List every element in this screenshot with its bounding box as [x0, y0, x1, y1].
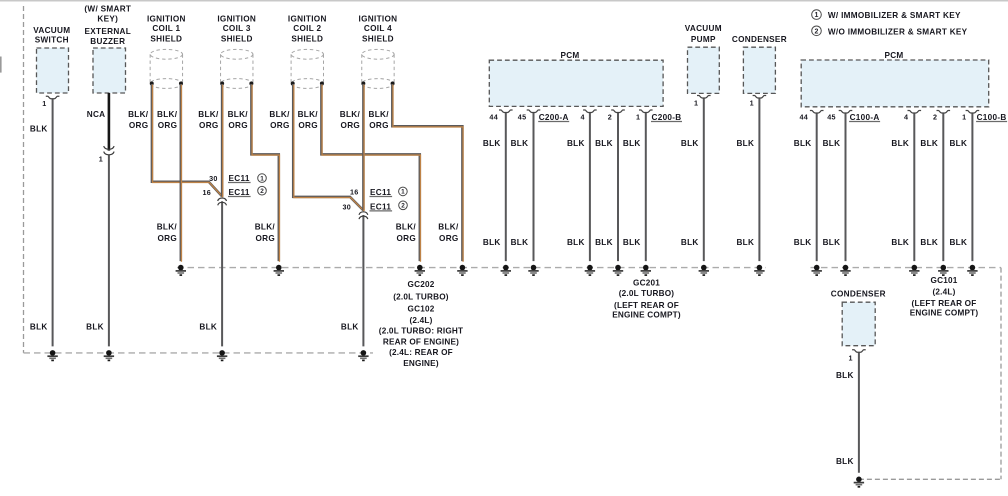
svg-text:BLK: BLK [567, 238, 585, 247]
svg-text:GC201: GC201 [633, 279, 660, 288]
svg-text:IGNITION: IGNITION [147, 15, 186, 24]
svg-text:BLK/: BLK/ [368, 110, 389, 119]
svg-text:BLK: BLK [794, 139, 812, 148]
svg-text:(2.4L): (2.4L) [409, 316, 432, 325]
svg-text:GC101: GC101 [931, 276, 958, 285]
svg-text:BLK/: BLK/ [438, 223, 459, 232]
svg-text:BLK: BLK [891, 139, 909, 148]
svg-text:BLK: BLK [199, 322, 217, 331]
svg-text:SHIELD: SHIELD [150, 35, 182, 44]
svg-text:1: 1 [260, 175, 264, 182]
svg-text:COIL 3: COIL 3 [223, 24, 251, 33]
svg-text:(W/ SMART: (W/ SMART [84, 4, 131, 13]
svg-text:(2.0L TURBO): (2.0L TURBO) [393, 292, 449, 301]
svg-text:W/O IMMOBILIZER & SMART KEY: W/O IMMOBILIZER & SMART KEY [828, 27, 968, 36]
svg-text:IGNITION: IGNITION [359, 15, 398, 24]
svg-text:16: 16 [202, 188, 211, 197]
svg-text:EC11: EC11 [229, 174, 250, 183]
svg-text:SHIELD: SHIELD [362, 35, 394, 44]
svg-text:VACUUM: VACUUM [33, 26, 70, 35]
svg-text:SWITCH: SWITCH [35, 36, 69, 45]
svg-text:ORG: ORG [439, 234, 459, 243]
svg-text:BLK: BLK [341, 322, 359, 331]
svg-text:BLK/: BLK/ [255, 223, 276, 232]
svg-text:BLK: BLK [736, 139, 754, 148]
svg-text:C200-A: C200-A [539, 113, 569, 122]
svg-text:BLK: BLK [836, 457, 854, 466]
svg-text:BLK: BLK [949, 139, 967, 148]
svg-text:W/ IMMOBILIZER & SMART KEY: W/ IMMOBILIZER & SMART KEY [828, 11, 961, 20]
svg-text:(LEFT REAR OF: (LEFT REAR OF [614, 301, 679, 310]
svg-text:ORG: ORG [270, 121, 290, 130]
svg-text:BLK/: BLK/ [157, 110, 178, 119]
svg-text:BLK: BLK [794, 238, 812, 247]
svg-text:45: 45 [827, 113, 836, 122]
svg-text:ORG: ORG [199, 121, 219, 130]
svg-text:1: 1 [42, 99, 46, 108]
svg-text:44: 44 [489, 113, 498, 122]
svg-text:COIL 4: COIL 4 [364, 24, 392, 33]
svg-text:ORG: ORG [157, 234, 177, 243]
svg-text:1: 1 [401, 189, 405, 196]
svg-text:4: 4 [580, 113, 584, 122]
svg-text:BLK/: BLK/ [198, 110, 219, 119]
svg-text:CONDENSER: CONDENSER [831, 290, 886, 299]
svg-text:2: 2 [933, 113, 937, 122]
svg-text:ORG: ORG [158, 121, 178, 130]
svg-text:BLK: BLK [511, 139, 529, 148]
svg-text:BLK: BLK [891, 238, 909, 247]
svg-text:16: 16 [350, 188, 359, 197]
svg-text:BLK: BLK [30, 322, 48, 331]
svg-text:BLK: BLK [920, 139, 938, 148]
svg-text:IGNITION: IGNITION [217, 15, 256, 24]
svg-text:ORG: ORG [255, 234, 275, 243]
svg-text:BLK/: BLK/ [340, 110, 361, 119]
svg-text:2: 2 [815, 28, 819, 35]
svg-text:(2.0L TURBO): (2.0L TURBO) [619, 289, 675, 298]
svg-text:BLK/: BLK/ [396, 223, 417, 232]
svg-text:1: 1 [99, 155, 103, 164]
svg-text:IGNITION: IGNITION [288, 15, 327, 24]
svg-text:BLK: BLK [623, 139, 641, 148]
svg-text:1: 1 [962, 113, 966, 122]
svg-text:(2.0L TURBO: RIGHT: (2.0L TURBO: RIGHT [379, 327, 463, 336]
svg-text:BLK/: BLK/ [298, 110, 319, 119]
svg-text:ENGINE COMPT): ENGINE COMPT) [910, 309, 979, 318]
svg-text:1: 1 [750, 99, 754, 108]
svg-text:COIL 1: COIL 1 [152, 24, 180, 33]
svg-text:BLK: BLK [511, 238, 529, 247]
svg-text:BLK/: BLK/ [269, 110, 290, 119]
svg-text:SHIELD: SHIELD [221, 35, 253, 44]
svg-text:1: 1 [848, 353, 852, 362]
svg-text:ORG: ORG [369, 121, 389, 130]
svg-text:BLK: BLK [595, 238, 613, 247]
svg-text:EC11: EC11 [370, 188, 391, 197]
svg-text:EC11: EC11 [370, 202, 391, 211]
svg-text:2: 2 [401, 203, 405, 210]
svg-text:NCA: NCA [87, 110, 106, 119]
svg-text:BLK/: BLK/ [157, 223, 178, 232]
svg-text:COIL 2: COIL 2 [293, 24, 321, 33]
svg-text:REAR OF ENGINE): REAR OF ENGINE) [383, 337, 459, 346]
svg-text:BLK: BLK [623, 238, 641, 247]
svg-text:1: 1 [636, 113, 640, 122]
svg-text:BLK/: BLK/ [128, 110, 149, 119]
svg-text:GC202: GC202 [408, 280, 435, 289]
svg-text:ENGINE): ENGINE) [403, 359, 439, 368]
svg-text:BLK: BLK [681, 238, 699, 247]
svg-text:2: 2 [260, 188, 264, 195]
svg-text:ENGINE COMPT): ENGINE COMPT) [612, 311, 681, 320]
svg-text:BLK: BLK [681, 139, 699, 148]
svg-text:BLK: BLK [823, 139, 841, 148]
svg-text:GC102: GC102 [408, 305, 435, 314]
svg-text:VACUUM: VACUUM [685, 24, 722, 33]
svg-text:PUMP: PUMP [691, 35, 716, 44]
svg-text:EXTERNAL: EXTERNAL [85, 27, 132, 36]
svg-text:BLK: BLK [823, 238, 841, 247]
svg-text:30: 30 [342, 202, 351, 211]
svg-text:44: 44 [799, 113, 808, 122]
svg-text:BLK: BLK [836, 371, 854, 380]
svg-text:CONDENSER: CONDENSER [732, 35, 787, 44]
svg-text:BLK: BLK [30, 124, 48, 133]
svg-text:BUZZER: BUZZER [90, 37, 125, 46]
svg-text:SHIELD: SHIELD [291, 35, 323, 44]
svg-text:ORG: ORG [129, 121, 149, 130]
svg-text:1: 1 [815, 12, 819, 19]
svg-text:ORG: ORG [298, 121, 318, 130]
svg-text:4: 4 [904, 113, 908, 122]
svg-text:ORG: ORG [228, 121, 248, 130]
svg-text:ORG: ORG [341, 121, 361, 130]
svg-text:BLK: BLK [595, 139, 613, 148]
svg-text:BLK: BLK [483, 238, 501, 247]
svg-text:BLK: BLK [567, 139, 585, 148]
svg-text:C100-A: C100-A [850, 113, 880, 122]
svg-text:(2.4L): (2.4L) [932, 287, 955, 296]
svg-text:BLK: BLK [920, 238, 938, 247]
svg-text:KEY): KEY) [97, 15, 118, 24]
svg-text:BLK: BLK [736, 238, 754, 247]
svg-text:C200-B: C200-B [652, 113, 682, 122]
svg-text:PCM: PCM [560, 51, 579, 60]
svg-text:(LEFT REAR OF: (LEFT REAR OF [912, 299, 977, 308]
svg-text:30: 30 [209, 174, 218, 183]
svg-text:BLK: BLK [483, 139, 501, 148]
svg-text:BLK: BLK [949, 238, 967, 247]
svg-text:(2.4L: REAR OF: (2.4L: REAR OF [389, 348, 453, 357]
svg-text:BLK: BLK [86, 322, 104, 331]
svg-text:PCM: PCM [884, 51, 903, 60]
svg-text:ORG: ORG [396, 234, 416, 243]
svg-text:45: 45 [518, 113, 527, 122]
svg-text:C100-B: C100-B [977, 113, 1007, 122]
svg-text:2: 2 [608, 113, 612, 122]
svg-text:EC11: EC11 [229, 188, 250, 197]
svg-text:1: 1 [694, 99, 698, 108]
svg-text:BLK/: BLK/ [228, 110, 249, 119]
